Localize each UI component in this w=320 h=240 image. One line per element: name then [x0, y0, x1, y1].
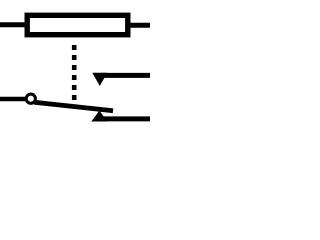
wire	[0, 97, 26, 102]
NO contact arrow	[91, 111, 107, 122]
switch lever (common pole)	[34, 102, 113, 111]
wire	[100, 116, 150, 121]
NC contact arrow	[92, 73, 107, 86]
mechanical linkage (dashed)	[72, 45, 77, 101]
wire	[100, 73, 150, 78]
switch pivot	[26, 94, 35, 103]
wire	[0, 22, 27, 27]
relay coil K1	[27, 15, 128, 34]
wire	[128, 23, 150, 28]
